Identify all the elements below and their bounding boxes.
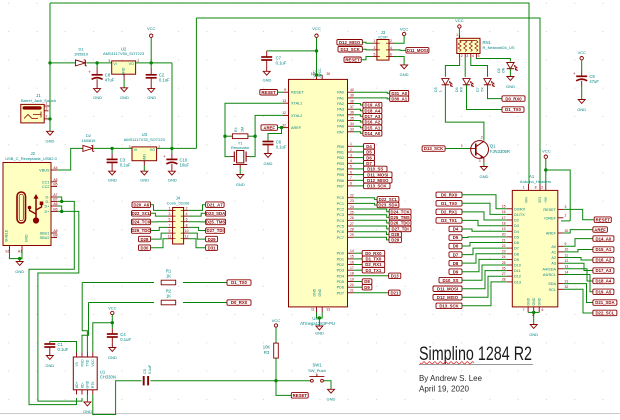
svg-text:7: 7 [350,176,352,180]
svg-text:B7: B7 [53,197,57,201]
svg-text:PA3: PA3 [337,108,344,112]
svg-text:D30_A1: D30_A1 [391,97,407,102]
svg-text:AREF: AREF [546,232,557,236]
svg-text:GND: GND [532,297,536,305]
svg-text:3: 3 [479,159,481,163]
svg-text:D23_SDA: D23_SDA [206,211,225,216]
svg-text:PB7: PB7 [337,184,344,188]
svg-text:30: 30 [327,72,331,76]
svg-text:D10: D10 [514,264,521,268]
svg-text:D12_MISO: D12_MISO [437,295,459,300]
svg-text:22: 22 [350,194,354,198]
svg-text:14: 14 [350,249,354,253]
svg-text:3: 3 [565,205,567,209]
svg-text:D1/TX: D1/TX [514,213,525,217]
svg-text:1: 1 [461,144,463,148]
svg-text:D14_A0: D14_A0 [365,131,381,136]
svg-text:RESET: RESET [261,90,276,95]
svg-text:A0: A0 [551,245,556,249]
svg-text:9: 9 [169,229,171,233]
svg-text:D9: D9 [514,258,519,262]
svg-text:31: 31 [565,279,569,283]
svg-text:4: 4 [186,212,188,216]
svg-text:1N5819: 1N5819 [74,52,89,57]
svg-text:D15_A1: D15_A1 [596,247,612,252]
svg-text:39: 39 [350,94,354,98]
svg-text:D26_TDO: D26_TDO [131,228,151,233]
svg-text:8: 8 [350,182,352,186]
svg-text:D31: D31 [208,245,216,250]
svg-text:RX: RX [460,86,464,92]
svg-text:0.1uF: 0.1uF [148,364,152,374]
svg-text:D24_TCK: D24_TCK [131,220,151,225]
svg-text:6: 6 [542,308,544,312]
svg-text:4: 4 [350,159,352,163]
svg-text:5: 5 [478,54,480,58]
svg-text:D29: D29 [208,237,216,242]
svg-text:D6: D6 [455,87,459,92]
svg-text:D31_A0: D31_A0 [391,91,407,96]
svg-text:PD5: PD5 [337,280,344,284]
svg-text:10: 10 [311,72,315,76]
svg-text:+5V: +5V [544,196,548,203]
svg-text:D12: D12 [514,275,521,279]
svg-text:R4: R4 [234,127,238,132]
svg-text:27: 27 [350,222,354,226]
svg-text:GND: GND [318,288,322,296]
svg-text:GND: GND [122,67,126,75]
svg-text:D17_A3: D17_A3 [365,114,381,119]
svg-text:26: 26 [502,266,506,270]
svg-text:D12_MISO: D12_MISO [367,178,389,183]
svg-text:14: 14 [565,270,569,274]
svg-text:30: 30 [565,229,569,233]
svg-text:D3_TX1: D3_TX1 [366,268,382,273]
svg-text:1K: 1K [166,274,171,279]
svg-text:3: 3 [169,212,171,216]
svg-text:2: 2 [481,135,483,139]
svg-text:A1: A1 [529,174,535,179]
svg-text:D7: D7 [514,247,519,251]
svg-text:PD0: PD0 [337,252,344,256]
svg-text:D2_RX1: D2_RX1 [441,210,458,215]
svg-text:PC6: PC6 [337,230,344,234]
svg-text:36: 36 [350,111,354,115]
svg-text:D12_MISO: D12_MISO [339,40,361,45]
svg-text:26: 26 [350,216,354,220]
svg-text:PA1: PA1 [337,96,344,100]
svg-text:SHIELD: SHIELD [5,229,9,242]
svg-text:25: 25 [350,211,354,215]
svg-text:8: 8 [186,223,188,227]
svg-text:B8: B8 [53,234,57,238]
svg-text:D10_SS: D10_SS [442,278,458,283]
svg-text:D21: D21 [390,291,398,296]
svg-text:+: + [573,71,576,76]
svg-text:38: 38 [350,99,354,103]
svg-text:ICSP: ICSP [378,35,388,40]
svg-text:L: L [439,90,443,92]
svg-text:D28: D28 [141,237,149,242]
svg-text:0.1uF: 0.1uF [159,78,170,83]
svg-text:VCC: VCC [542,149,551,154]
svg-text:A7: A7 [53,193,57,197]
svg-text:D11_MOSI: D11_MOSI [367,172,388,177]
svg-text:RESET: RESET [345,57,360,62]
svg-text:D28: D28 [391,232,399,237]
svg-text:5: 5 [374,52,376,56]
svg-text:VI: VI [113,62,116,66]
svg-text:3: 3 [108,59,110,63]
svg-text:13: 13 [282,99,286,103]
svg-text:2: 2 [461,54,463,58]
svg-text:Q1: Q1 [490,143,496,148]
svg-text:D4: D4 [366,144,372,149]
svg-text:XTAL2: XTAL2 [291,114,302,118]
svg-text:9: 9 [565,242,567,246]
svg-text:PB3: PB3 [337,162,344,166]
svg-text:PA5: PA5 [337,119,344,123]
svg-text:7: 7 [523,308,525,312]
svg-text:D19_A5: D19_A5 [596,290,612,295]
svg-text:10: 10 [565,248,569,252]
svg-text:AVCC: AVCC [318,68,322,78]
svg-text:SDA: SDA [548,282,556,286]
svg-text:RTS: RTS [91,381,95,388]
svg-text:24: 24 [502,255,506,259]
svg-text:32: 32 [565,285,569,289]
svg-text:D9: D9 [364,285,370,290]
svg-text:PC2: PC2 [337,208,344,212]
svg-text:4: 4 [390,46,392,50]
svg-text:A8: A8 [53,229,57,233]
svg-text:21: 21 [350,289,354,293]
svg-text:D18_A4: D18_A4 [596,279,612,284]
svg-text:D5: D5 [453,235,459,240]
svg-text:A6: A6 [53,202,57,206]
svg-text:VCC: VCC [400,26,409,31]
svg-text:B6: B6 [53,207,57,211]
svg-text:PB2: PB2 [337,156,344,160]
svg-text:D1_TX0: D1_TX0 [231,280,247,285]
svg-text:A5: A5 [53,178,57,182]
svg-text:28: 28 [502,278,506,282]
svg-text:GND: GND [108,178,117,183]
svg-text:GND: GND [168,178,177,183]
svg-text:VCC: VCC [272,318,281,323]
svg-text:D3: D3 [514,224,519,228]
svg-text:PC5: PC5 [337,225,344,229]
svg-text:D11_MOSI: D11_MOSI [407,48,428,53]
svg-text:D10_SS: D10_SS [367,167,383,172]
svg-text:D13_SCK: D13_SCK [367,184,387,189]
svg-text:D0_RX0: D0_RX0 [365,251,382,256]
svg-text:10: 10 [185,229,189,233]
svg-text:D26_TDO: D26_TDO [390,221,410,226]
svg-text:SCL: SCL [549,288,556,292]
svg-text:VCC: VCC [147,26,156,31]
svg-text:23: 23 [502,250,506,254]
svg-text:11: 11 [311,308,315,312]
svg-text:1: 1 [46,102,48,106]
svg-text:AMS1117V50_SOT223: AMS1117V50_SOT223 [103,51,145,56]
svg-text:D7: D7 [476,87,480,92]
svg-text:17: 17 [350,266,354,270]
svg-text:15: 15 [502,205,506,209]
svg-text:D14_A0: D14_A0 [596,236,612,241]
svg-text:0.1uF: 0.1uF [120,337,131,342]
svg-text:AMS1117V33_SOT223: AMS1117V33_SOT223 [124,137,166,142]
svg-text:GND: GND [93,95,102,100]
svg-text:Conn_02x06: Conn_02x06 [167,200,190,205]
svg-text:D16_A2: D16_A2 [365,120,381,125]
svg-text:CH330N: CH330N [100,375,116,380]
svg-text:27: 27 [502,272,506,276]
svg-text:13: 13 [565,265,569,269]
svg-text:16: 16 [502,210,506,214]
svg-text:GND: GND [479,174,488,179]
svg-text:SW_Push: SW_Push [308,368,326,373]
svg-text:16: 16 [350,260,354,264]
svg-text:CC2: CC2 [42,185,50,189]
svg-text:D13_SCK: D13_SCK [341,47,361,52]
svg-text:D2_RX1: D2_RX1 [365,262,382,267]
svg-text:D6: D6 [514,241,519,245]
svg-text:PD6: PD6 [337,286,344,290]
svg-text:PD1: PD1 [337,257,344,261]
svg-text:SBU2: SBU2 [40,236,50,240]
svg-text:GND: GND [315,331,324,336]
svg-text:D1_TX0: D1_TX0 [505,107,521,112]
svg-text:2: 2 [137,59,139,63]
svg-text:D0_RX0: D0_RX0 [231,300,248,305]
svg-text:+: + [163,154,166,159]
svg-text:D22_SCL: D22_SCL [379,197,398,202]
svg-text:9: 9 [284,88,286,92]
svg-text:D+: D+ [45,210,51,214]
svg-text:2: 2 [46,115,48,119]
svg-text:RESET: RESET [293,393,308,398]
svg-text:ON: ON [502,67,506,73]
svg-text:D7: D7 [366,161,372,166]
svg-text:RESET: RESET [543,208,556,212]
svg-text:VCC: VCC [91,359,95,367]
svg-text:12: 12 [565,259,569,263]
svg-text:0.1uF: 0.1uF [58,347,69,352]
svg-text:GND: GND [327,397,336,402]
svg-text:D4: D4 [453,227,459,232]
svg-text:1N5819: 1N5819 [81,138,96,143]
svg-text:17: 17 [502,216,506,220]
svg-text:37: 37 [350,105,354,109]
svg-text:A4: A4 [53,166,57,170]
svg-text:0.1uF: 0.1uF [276,61,287,66]
svg-text:PC7: PC7 [337,236,344,240]
svg-text:2: 2 [186,206,188,210]
svg-text:April 19, 2020: April 19, 2020 [419,384,469,394]
svg-text:PA2: PA2 [337,102,344,106]
svg-text:D8: D8 [497,68,501,73]
svg-text:D5: D5 [514,235,519,239]
svg-text:23: 23 [350,199,354,203]
svg-text:D15_A1: D15_A1 [365,125,381,130]
svg-text:PC4: PC4 [337,219,344,223]
svg-text:VBUS: VBUS [39,169,50,173]
svg-text:RESET: RESET [596,217,611,222]
svg-text:19: 19 [502,227,506,231]
svg-text:A1: A1 [551,250,556,254]
svg-text:TX: TX [481,87,485,92]
svg-text:35: 35 [350,116,354,120]
svg-text:IOREF: IOREF [544,216,556,220]
svg-text:D11: D11 [514,269,521,273]
svg-text:D4: D4 [514,230,519,234]
svg-text:21: 21 [502,238,506,242]
svg-text:2: 2 [565,214,567,218]
svg-text:PB1: PB1 [337,151,344,155]
svg-text:1: 1 [374,39,376,43]
svg-text:GND: GND [236,182,245,187]
svg-text:D11_MOSI: D11_MOSI [437,286,458,291]
svg-text:VO: VO [129,62,134,66]
svg-text:VO: VO [150,148,155,152]
svg-text:11: 11 [565,253,569,257]
svg-text:GND: GND [577,107,586,112]
svg-text:D0_RX0: D0_RX0 [505,96,522,101]
svg-text:PA0: PA0 [337,91,344,95]
svg-text:D18_A4: D18_A4 [365,108,381,113]
svg-text:0.1uF: 0.1uF [276,145,287,150]
svg-text:47uF: 47uF [589,79,599,84]
svg-text:PD2: PD2 [337,263,344,267]
svg-text:D7: D7 [453,252,459,257]
svg-text:D0/RX: D0/RX [514,207,526,211]
svg-text:33: 33 [350,128,354,132]
svg-text:3: 3 [466,54,468,58]
svg-text:20: 20 [350,283,354,287]
svg-text:5: 5 [350,165,352,169]
svg-text:B5: B5 [53,182,57,186]
svg-text:A3: A3 [551,262,556,266]
svg-text:D2: D2 [514,219,519,223]
svg-text:D16_A2: D16_A2 [596,258,612,263]
svg-text:D0_RX0: D0_RX0 [441,193,458,198]
svg-text:Barrel_Jack_Switch: Barrel_Jack_Switch [21,98,56,103]
svg-text:19: 19 [350,277,354,281]
svg-text:3: 3 [129,145,131,149]
svg-text:3: 3 [350,153,352,157]
svg-text:1: 1 [523,186,525,190]
svg-text:20: 20 [502,233,506,237]
svg-text:UD+: UD+ [75,381,79,388]
svg-text:D1_TX0: D1_TX0 [441,201,457,206]
svg-text:VCC: VCC [455,18,464,23]
svg-text:8: 8 [535,186,537,190]
svg-text:6: 6 [350,170,352,174]
svg-text:D13: D13 [391,274,399,279]
svg-text:D19_A5: D19_A5 [365,103,381,108]
svg-text:2: 2 [350,148,352,152]
svg-text:GND: GND [147,95,156,100]
svg-text:R_Network04_US: R_Network04_US [483,45,515,50]
svg-text:AREF: AREF [291,126,302,130]
svg-text:0.1uF: 0.1uF [120,162,131,167]
svg-text:D20_A6: D20_A6 [133,202,149,207]
svg-text:GND: GND [108,355,117,360]
svg-text:D1_TX0: D1_TX0 [366,257,382,262]
svg-text:1: 1 [350,142,352,146]
svg-text:22: 22 [502,244,506,248]
svg-text:15: 15 [350,255,354,259]
svg-text:18: 18 [350,272,354,276]
svg-text:24: 24 [350,205,354,209]
svg-text:31: 31 [327,308,331,312]
svg-text:3: 3 [374,46,376,50]
svg-text:PA7: PA7 [337,130,344,134]
svg-text:D6: D6 [366,155,372,160]
svg-text:GND: GND [83,409,92,414]
svg-text:1: 1 [456,33,458,37]
svg-text:7: 7 [169,223,171,227]
svg-text:D13: D13 [514,280,521,284]
svg-text:D30: D30 [141,245,149,250]
svg-text:D+: D+ [45,205,51,209]
svg-text:1K: 1K [166,294,171,299]
svg-text:VCC: VCC [312,26,321,31]
svg-text:C5: C5 [143,369,147,374]
svg-text:PB6: PB6 [337,179,344,183]
svg-text:A2: A2 [551,256,556,260]
svg-text:12: 12 [185,235,189,239]
svg-text:ATmega1284P-PU: ATmega1284P-PU [300,321,335,326]
svg-text:AREF: AREF [594,227,606,232]
svg-text:D22_SCL: D22_SCL [595,311,614,316]
svg-text:+: + [88,70,91,75]
svg-text:6: 6 [390,52,392,56]
svg-text:D24_TCK: D24_TCK [391,210,411,215]
svg-text:1: 1 [169,206,171,210]
svg-text:D6: D6 [453,244,459,249]
svg-text:GND: GND [506,84,515,89]
svg-text:D8: D8 [453,261,459,266]
svg-text:11: 11 [168,235,172,239]
svg-text:GND: GND [263,78,272,83]
svg-text:D17_A3: D17_A3 [596,268,612,273]
svg-text:47uF: 47uF [105,78,115,83]
svg-text:PA6: PA6 [337,125,344,129]
svg-text:12: 12 [282,111,286,115]
svg-text:GND: GND [142,154,146,162]
svg-text:By Andrew S. Lee: By Andrew S. Lee [419,373,482,383]
svg-text:5: 5 [169,218,171,222]
svg-text:Arduino_Headers: Arduino_Headers [520,179,551,184]
svg-text:D25_TMS: D25_TMS [206,220,225,225]
svg-text:D25_TMS: D25_TMS [390,215,409,220]
svg-text:GND: GND [264,161,273,166]
svg-text:GND: GND [25,234,29,242]
svg-text:3V3: 3V3 [538,197,542,203]
svg-text:6: 6 [186,218,188,222]
svg-text:GND: GND [46,139,55,144]
svg-text:GND: GND [400,72,409,77]
svg-text:XTAL1: XTAL1 [291,102,302,106]
svg-text:GND: GND [529,332,538,337]
svg-text:SW1: SW1 [312,363,322,368]
svg-text:V3: V3 [75,362,79,366]
svg-text:2: 2 [390,39,392,43]
svg-text:40: 40 [350,88,354,92]
svg-text:CC1: CC1 [42,180,50,184]
